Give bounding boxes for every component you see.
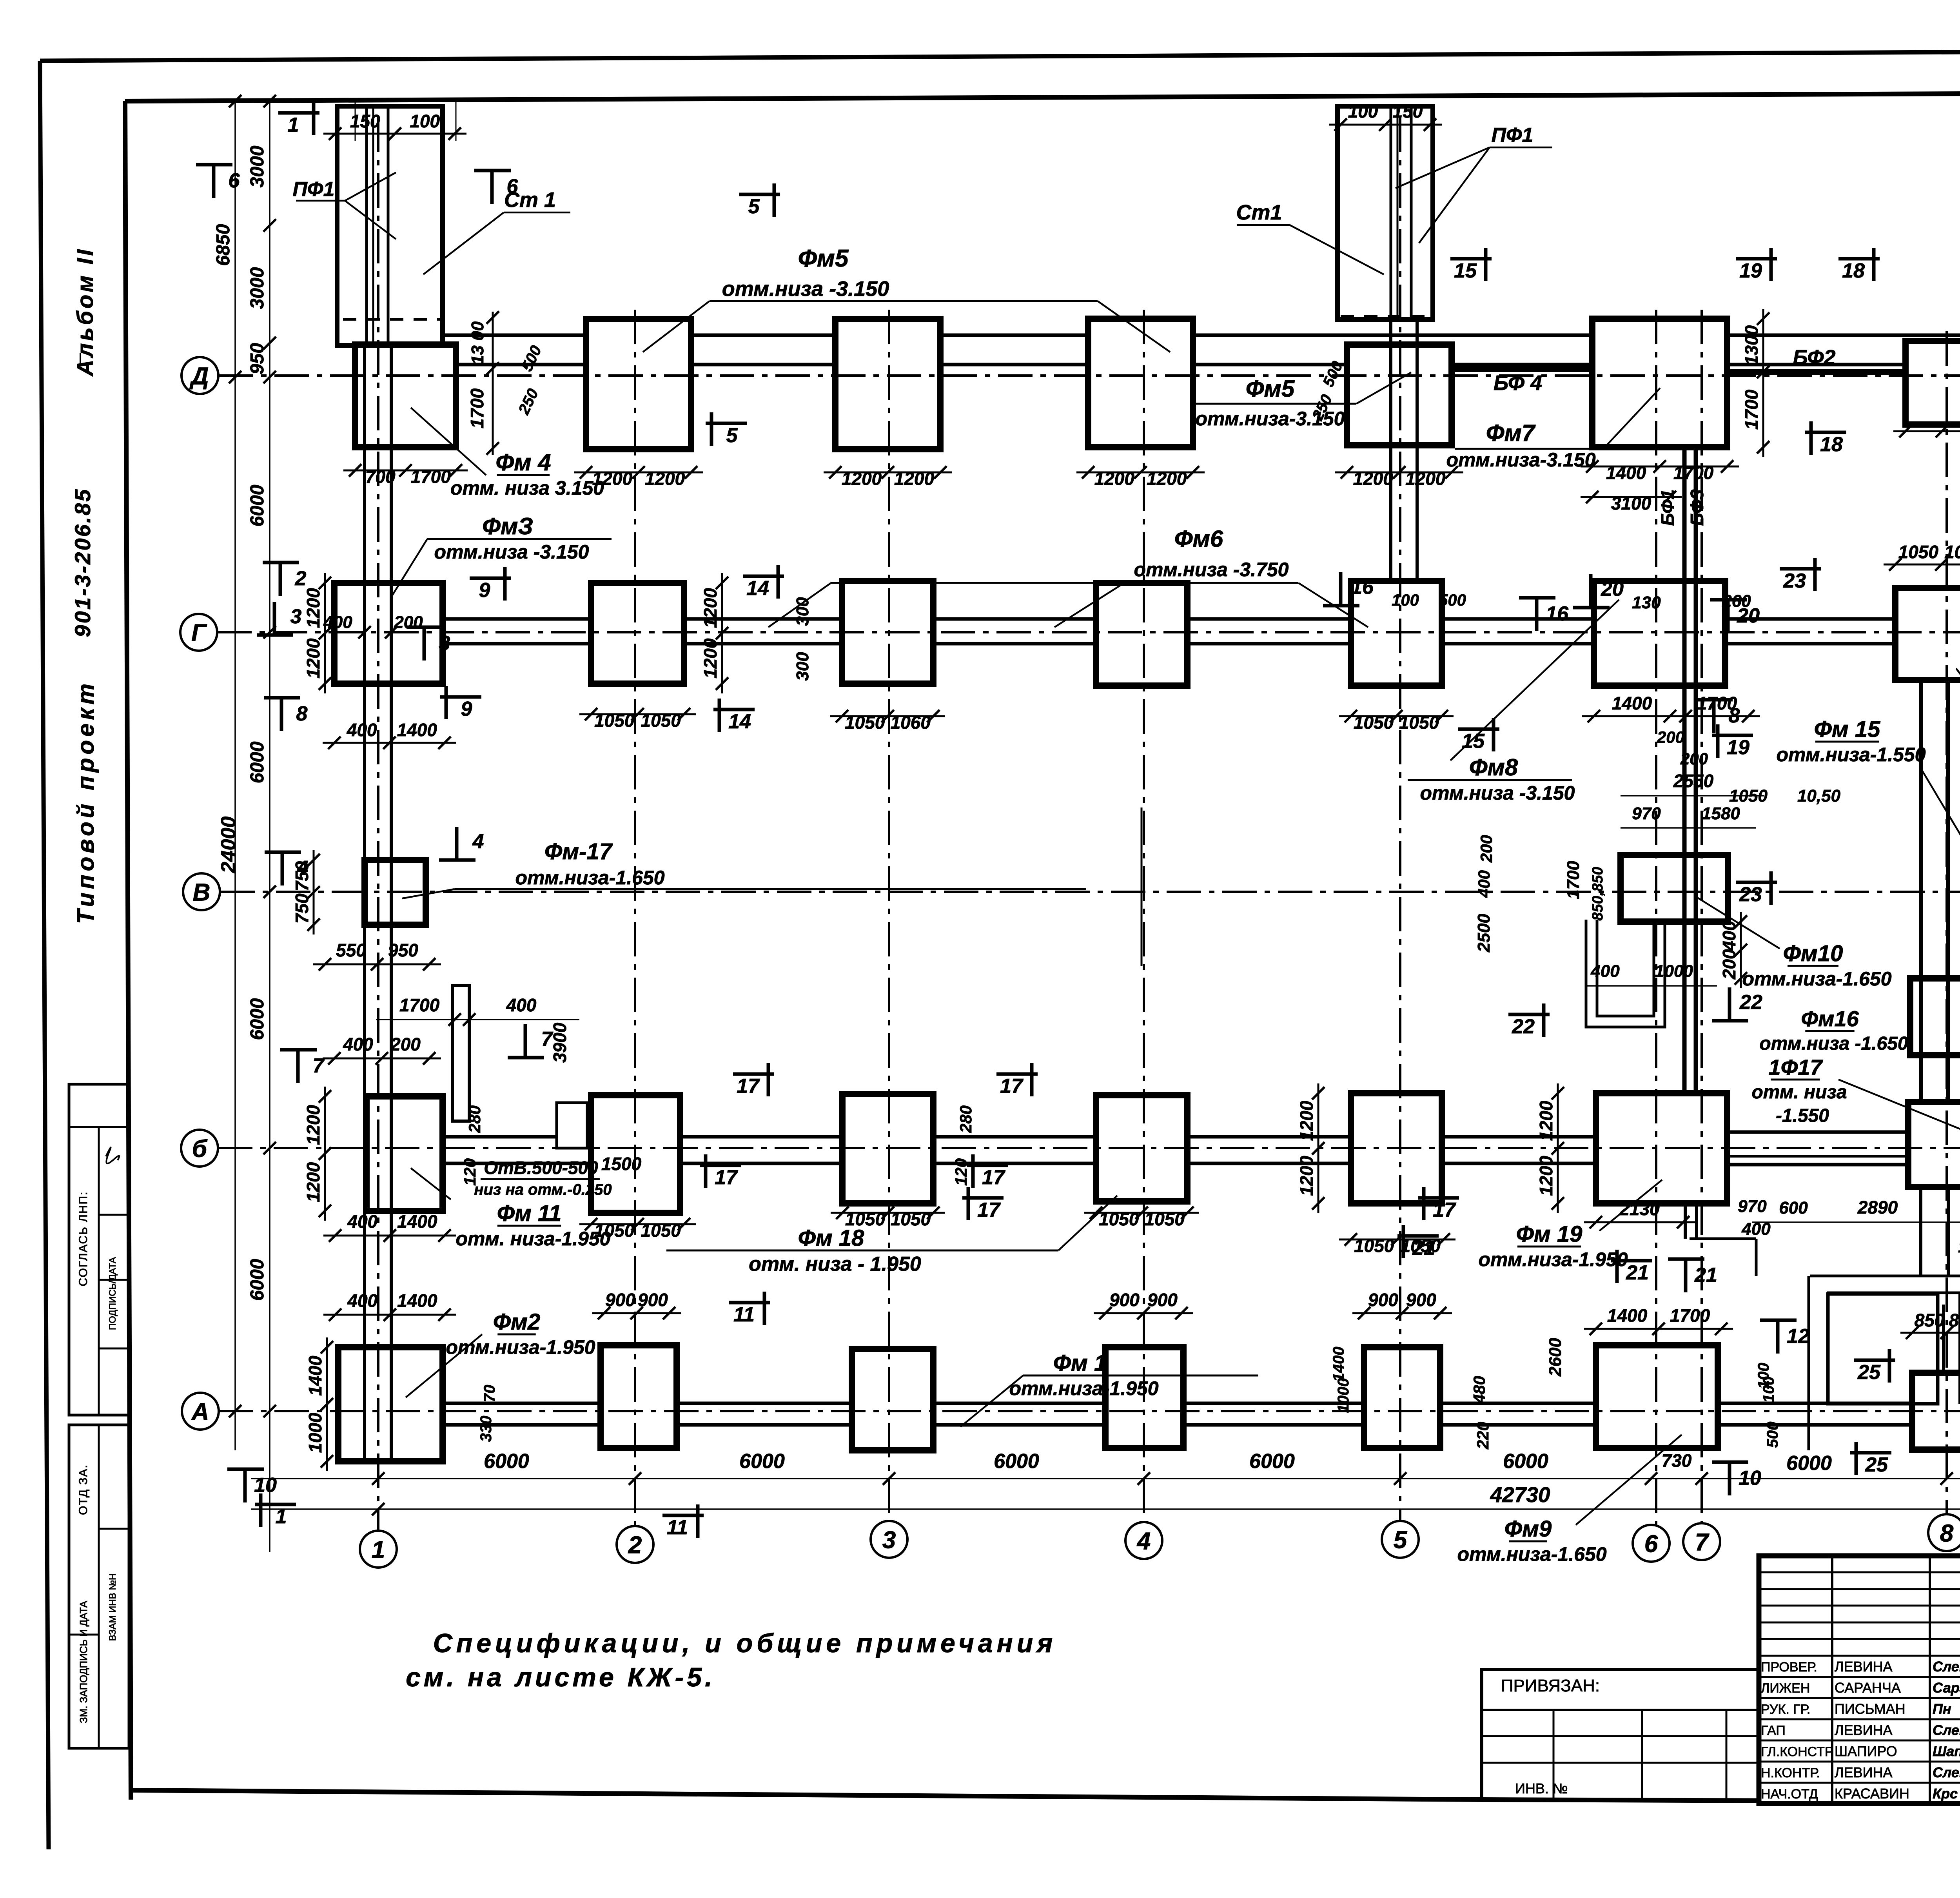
svg-text:15: 15 <box>1462 730 1485 753</box>
svg-text:600: 600 <box>1779 1198 1808 1218</box>
svg-text:17: 17 <box>977 1199 1001 1221</box>
svg-text:7: 7 <box>313 1054 325 1077</box>
svg-text:1000: 1000 <box>1335 1378 1352 1413</box>
svg-text:8: 8 <box>296 702 308 725</box>
svg-text:400: 400 <box>347 1211 377 1232</box>
svg-text:100: 100 <box>1958 1238 1960 1256</box>
svg-text:Типовой проект: Типовой проект <box>73 680 99 924</box>
svg-text:16: 16 <box>1351 576 1374 599</box>
svg-text:ЛИЖЕН: ЛИЖЕН <box>1761 1681 1810 1696</box>
svg-text:ЛЕВИНА: ЛЕВИНА <box>1835 1722 1893 1738</box>
svg-text:отм.низа-3.150: отм.низа-3.150 <box>1195 408 1345 430</box>
opening ОтВ 500x500 <box>557 1103 587 1148</box>
total 42730 line <box>251 1508 1960 1510</box>
svg-text:Фм 4: Фм 4 <box>495 449 551 475</box>
axis circle Д <box>181 357 218 394</box>
svg-text:1050: 1050 <box>641 710 681 731</box>
svg-text:отм.низа-1.950: отм.низа-1.950 <box>1478 1248 1628 1270</box>
svg-text:низ на отм.-0.250: низ на отм.-0.250 <box>474 1181 612 1198</box>
svg-text:22: 22 <box>1739 991 1762 1014</box>
axis circles 1-9 <box>360 1531 397 1568</box>
svg-text:ПИСЬМАН: ПИСЬМАН <box>1835 1701 1906 1717</box>
svg-text:901-3-206.85: 901-3-206.85 <box>70 488 95 637</box>
title block <box>1759 1556 1960 1804</box>
svg-text:6850: 6850 <box>213 224 234 266</box>
svg-text:отм.низа -1.650: отм.низа -1.650 <box>1759 1033 1908 1054</box>
attachment table ПРИВЯЗАН <box>1482 1669 1759 1800</box>
svg-text:1700: 1700 <box>1564 861 1583 899</box>
svg-text:ЗМ. ЗАПОДПИСЬ И ДАТА: ЗМ. ЗАПОДПИСЬ И ДАТА <box>78 1600 89 1723</box>
svg-text:отм.низа-1.650: отм.низа-1.650 <box>1742 968 1891 990</box>
svg-text:отм.низа-1.550: отм.низа-1.550 <box>1776 744 1926 766</box>
svg-text:Фм 1: Фм 1 <box>1053 1350 1107 1376</box>
foundation beams row Г <box>391 617 1960 621</box>
svg-text:1700: 1700 <box>1670 1305 1710 1326</box>
svg-text:отм.низа-1.950: отм.низа-1.950 <box>1009 1377 1158 1399</box>
retaining wall pillar Ст1 at column 5 <box>1338 106 1433 319</box>
svg-text:ПОДПИСЬ/ДАТА: ПОДПИСЬ/ДАТА <box>107 1257 118 1330</box>
svg-text:Спецификации, и общие прим: Спецификации, и общие примечания <box>433 1628 1057 1658</box>
foundation ФМ12 <box>1895 588 1960 680</box>
svg-text:100: 100 <box>1348 101 1378 122</box>
svg-text:1700: 1700 <box>1741 389 1762 430</box>
svg-text:42730: 42730 <box>1490 1482 1550 1507</box>
svg-text:3: 3 <box>882 1526 896 1553</box>
svg-text:ФмЗ: ФмЗ <box>482 513 533 539</box>
svg-text:1: 1 <box>372 1536 385 1563</box>
svg-text:850: 850 <box>1949 1310 1960 1330</box>
svg-text:23: 23 <box>1739 883 1762 906</box>
axis row Д <box>219 374 1960 377</box>
svg-text:25: 25 <box>1857 1361 1881 1384</box>
svg-text:см. на листе КЖ-5.: см. на листе КЖ-5. <box>406 1662 715 1692</box>
svg-text:280: 280 <box>465 1105 484 1133</box>
svg-text:Слевира: Слевира <box>1933 1722 1960 1738</box>
svg-text:РУК. ГР.: РУК. ГР. <box>1761 1702 1810 1717</box>
svg-text:1580: 1580 <box>1702 804 1740 823</box>
local dimensions row А <box>592 1312 681 1314</box>
svg-text:Фм9: Фм9 <box>1504 1516 1552 1542</box>
svg-text:950: 950 <box>388 940 418 960</box>
svg-text:22: 22 <box>1512 1015 1535 1038</box>
svg-text:200: 200 <box>1680 749 1708 768</box>
svg-text:200: 200 <box>1719 949 1739 980</box>
svg-text:970: 970 <box>1738 1197 1767 1216</box>
svg-text:19: 19 <box>1739 259 1762 282</box>
svg-text:1200: 1200 <box>1296 1101 1317 1141</box>
svg-text:1200: 1200 <box>303 588 323 628</box>
svg-text:СОГЛАСЬ ЛНП:: СОГЛАСЬ ЛНП: <box>77 1191 90 1287</box>
svg-text:САРАНЧА: САРАНЧА <box>1835 1680 1901 1696</box>
svg-text:20: 20 <box>1601 578 1624 601</box>
svg-text:12: 12 <box>1787 1325 1809 1348</box>
svg-text:ПФ1: ПФ1 <box>293 178 335 201</box>
svg-text:ПФ1: ПФ1 <box>1492 124 1534 147</box>
axis circle Б <box>181 1130 218 1167</box>
svg-text:1700: 1700 <box>399 995 440 1015</box>
svg-text:ГАП: ГАП <box>1761 1723 1786 1738</box>
svg-text:500: 500 <box>1764 1422 1781 1448</box>
top dimensions over pillars <box>323 133 466 135</box>
svg-text:Фм 11: Фм 11 <box>497 1201 562 1226</box>
beam БФ1 / БФ3 vertical pair <box>1682 447 1687 1093</box>
svg-text:25: 25 <box>1865 1453 1888 1476</box>
svg-text:Ст1: Ст1 <box>1236 201 1282 224</box>
svg-text:6000: 6000 <box>739 1450 785 1473</box>
foundations row Г <box>334 583 443 684</box>
svg-text:отм.низа-1.650: отм.низа-1.650 <box>1457 1543 1606 1565</box>
svg-text:Фм6: Фм6 <box>1174 526 1223 552</box>
svg-text:6000: 6000 <box>994 1450 1039 1473</box>
svg-text:6000: 6000 <box>247 484 268 526</box>
svg-text:6000: 6000 <box>1249 1450 1295 1473</box>
axis row А <box>219 1410 1960 1412</box>
svg-text:отм. низа-1.950: отм. низа-1.950 <box>456 1228 611 1250</box>
svg-text:Фм8: Фм8 <box>1469 754 1518 780</box>
svg-text:24000: 24000 <box>217 817 240 874</box>
svg-text:23: 23 <box>1783 570 1806 592</box>
svg-text:Сарз: Сарз <box>1933 1680 1960 1696</box>
svg-text:Фм 18: Фм 18 <box>798 1225 865 1251</box>
section markers <box>196 163 232 167</box>
svg-text:3: 3 <box>290 605 302 628</box>
retaining wall pillar Ст1 at column 1 <box>337 106 443 345</box>
svg-text:отм.низа -3.750: отм.низа -3.750 <box>1134 559 1289 581</box>
wall lines column 1 <box>363 345 366 1461</box>
foundation beams row Б <box>391 1135 1596 1139</box>
svg-text:2550: 2550 <box>1673 771 1714 791</box>
foundation ФМ19 <box>1596 1093 1727 1203</box>
narrow pier near Б <box>452 985 469 1121</box>
sidebar stamp box B <box>69 1425 129 1748</box>
svg-text:750: 750 <box>292 893 312 924</box>
svg-text:ИНВ. №: ИНВ. № <box>1515 1780 1568 1796</box>
svg-text:1200: 1200 <box>645 468 685 489</box>
axis circle Г <box>180 614 217 651</box>
svg-text:6000: 6000 <box>247 741 268 783</box>
svg-text:150: 150 <box>1393 101 1423 122</box>
svg-text:1400: 1400 <box>1607 1305 1648 1326</box>
svg-text:400: 400 <box>347 1290 377 1311</box>
svg-text:13 00: 13 00 <box>468 321 487 365</box>
svg-text:1400: 1400 <box>305 1355 325 1396</box>
svg-text:Фм10: Фм10 <box>1783 941 1843 966</box>
beam pair column 8 <box>1919 680 1923 1102</box>
foundation ФМ10 <box>1621 855 1728 922</box>
svg-text:отм. низа: отм. низа <box>1751 1082 1847 1103</box>
foundation ФМ8 <box>1594 581 1725 686</box>
svg-text:850,850: 850,850 <box>1590 867 1606 920</box>
svg-text:б: б <box>192 1135 208 1162</box>
left vertical dimension chains <box>234 101 236 1450</box>
svg-text:400: 400 <box>323 613 352 632</box>
svg-text:Шап.: Шап. <box>1933 1743 1960 1759</box>
svg-text:1700: 1700 <box>411 466 451 487</box>
svg-text:19: 19 <box>1727 736 1749 759</box>
svg-text:отм.низа -3.150: отм.низа -3.150 <box>1420 782 1575 804</box>
svg-text:1700: 1700 <box>1673 463 1714 483</box>
svg-text:10: 10 <box>1739 1467 1761 1490</box>
svg-text:отм.низа-1.950: отм.низа-1.950 <box>446 1336 595 1358</box>
foundation ФМ2 <box>338 1347 443 1461</box>
svg-text:900: 900 <box>1368 1290 1398 1310</box>
svg-text:КРАСАВИН: КРАСАВИН <box>1835 1785 1909 1802</box>
svg-text:1200: 1200 <box>1405 468 1446 489</box>
axis circle В <box>183 873 220 910</box>
svg-text:14: 14 <box>746 577 769 600</box>
svg-text:900: 900 <box>1147 1290 1178 1310</box>
svg-text:1200: 1200 <box>1536 1156 1556 1196</box>
svg-text:3000: 3000 <box>247 145 268 187</box>
svg-text:3: 3 <box>439 632 450 655</box>
svg-text:100: 100 <box>410 111 440 131</box>
svg-text:11: 11 <box>667 1516 688 1539</box>
svg-text:1000: 1000 <box>1655 962 1693 981</box>
svg-text:ВЗАМ ИНВ №Н: ВЗАМ ИНВ №Н <box>107 1573 118 1641</box>
svg-text:6: 6 <box>1644 1530 1658 1557</box>
svg-text:500: 500 <box>1439 591 1466 609</box>
svg-text:6: 6 <box>229 169 240 192</box>
svg-text:200: 200 <box>1657 728 1684 746</box>
svg-text:А: А <box>191 1398 209 1425</box>
inner drawing border <box>125 91 1960 101</box>
svg-text:1200: 1200 <box>1147 468 1187 489</box>
foundation beams row Д <box>391 334 1960 337</box>
svg-text:6000: 6000 <box>247 1259 268 1301</box>
svg-text:Фм 19: Фм 19 <box>1516 1221 1583 1247</box>
svg-text:НАЧ.ОТД: НАЧ.ОТД <box>1761 1787 1818 1802</box>
svg-text:1050: 1050 <box>1944 542 1960 562</box>
svg-text:70: 70 <box>481 1385 498 1403</box>
svg-text:2500: 2500 <box>1474 914 1494 953</box>
svg-text:220: 220 <box>1474 1422 1492 1450</box>
svg-text:1000: 1000 <box>305 1413 325 1453</box>
svg-text:Н.КОНТР.: Н.КОНТР. <box>1761 1766 1820 1780</box>
svg-text:1050: 1050 <box>641 1220 681 1241</box>
svg-text:11: 11 <box>733 1303 755 1326</box>
foundation ФМ9 <box>1596 1345 1718 1448</box>
svg-text:1200: 1200 <box>1536 1101 1556 1141</box>
svg-text:отм.низа-3.150: отм.низа-3.150 <box>1446 449 1595 471</box>
svg-text:3900: 3900 <box>550 1022 570 1063</box>
foundation ФМ1 <box>601 1345 677 1448</box>
svg-text:6000: 6000 <box>1786 1452 1832 1475</box>
svg-text:1050: 1050 <box>1898 542 1939 562</box>
foundation beams row А <box>391 1402 1960 1405</box>
svg-text:отм.низа -3.150: отм.низа -3.150 <box>434 541 589 563</box>
svg-text:Слевина: Слевина <box>1933 1658 1960 1675</box>
svg-text:1: 1 <box>276 1505 287 1528</box>
svg-text:2600: 2600 <box>1546 1338 1565 1377</box>
svg-text:1050: 1050 <box>1354 712 1394 733</box>
svg-text:150: 150 <box>350 111 380 131</box>
svg-text:7: 7 <box>1695 1529 1710 1556</box>
pit ФМ16 outline <box>1586 920 1665 1027</box>
svg-text:400: 400 <box>1719 920 1739 951</box>
wall lines column 5 <box>1389 319 1392 581</box>
retaining wall strips lower right <box>1810 1275 1960 1277</box>
svg-text:Фм5: Фм5 <box>798 245 849 272</box>
svg-text:1400: 1400 <box>1612 693 1652 713</box>
svg-text:ОТД ЗА.: ОТД ЗА. <box>77 1464 90 1515</box>
svg-text:ПРОВЕР.: ПРОВЕР. <box>1761 1660 1817 1675</box>
svg-text:730: 730 <box>1662 1450 1692 1471</box>
svg-text:400: 400 <box>1475 870 1493 898</box>
intermediate foundations <box>1910 978 1960 1055</box>
svg-text:Слевина: Слевина <box>1933 1764 1960 1780</box>
svg-text:Фм7: Фм7 <box>1486 420 1536 446</box>
svg-text:1200: 1200 <box>1296 1156 1317 1196</box>
beam БФ4 (thick) <box>1452 366 1597 372</box>
svg-text:4: 4 <box>472 830 484 853</box>
svg-text:900: 900 <box>605 1290 635 1310</box>
svg-text:1700: 1700 <box>467 388 487 428</box>
svg-text:1200: 1200 <box>700 638 720 679</box>
svg-text:Д: Д <box>189 363 209 390</box>
svg-text:1500: 1500 <box>601 1154 642 1174</box>
foundation ФМ11 <box>367 1096 443 1211</box>
svg-text:900: 900 <box>1406 1290 1436 1310</box>
svg-text:1050: 1050 <box>594 710 635 731</box>
bottom axis distance chain <box>251 1478 1960 1479</box>
svg-text:Пн: Пн <box>1933 1701 1951 1717</box>
svg-text:17: 17 <box>1000 1075 1024 1098</box>
svg-text:1: 1 <box>288 114 299 136</box>
svg-text:6000: 6000 <box>484 1450 529 1473</box>
svg-text:1050: 1050 <box>1099 1209 1139 1229</box>
svg-text:10: 10 <box>254 1474 277 1497</box>
svg-text:3000: 3000 <box>247 267 268 309</box>
local dimensions row Б <box>579 1223 696 1225</box>
svg-text:1300: 1300 <box>1741 325 1762 365</box>
local dimensions row Г <box>579 713 696 715</box>
svg-text:900: 900 <box>638 1290 668 1310</box>
svg-text:950: 950 <box>247 343 268 374</box>
svg-text:1060: 1060 <box>891 712 931 733</box>
svg-text:1400: 1400 <box>397 720 437 740</box>
svg-text:8: 8 <box>1729 704 1740 727</box>
svg-text:9: 9 <box>479 579 490 602</box>
axis circle А <box>182 1393 219 1430</box>
svg-text:17: 17 <box>737 1075 760 1098</box>
axis row Б <box>218 1147 1960 1149</box>
svg-text:130: 130 <box>1632 593 1661 612</box>
svg-text:400: 400 <box>506 995 537 1015</box>
foundation ФМ17 <box>365 860 426 925</box>
beam БФ2 row Д (thick) <box>1727 369 1960 375</box>
svg-text:Фм-17: Фм-17 <box>544 839 613 864</box>
svg-text:Фм 15: Фм 15 <box>1814 717 1881 742</box>
svg-text:330: 330 <box>477 1416 495 1442</box>
svg-text:970: 970 <box>1632 804 1661 823</box>
svg-text:300: 300 <box>793 652 812 681</box>
svg-text:400: 400 <box>347 720 377 740</box>
svg-text:В: В <box>193 879 211 906</box>
svg-text:550: 550 <box>336 940 366 960</box>
svg-text:Фм2: Фм2 <box>493 1309 540 1335</box>
svg-text:1050: 1050 <box>845 712 885 733</box>
svg-text:Крс: Крс <box>1933 1785 1958 1802</box>
svg-text:8: 8 <box>1940 1520 1954 1547</box>
svg-text:отм.низа -3.150: отм.низа -3.150 <box>722 277 889 301</box>
svg-text:200: 200 <box>1477 835 1495 863</box>
foundation ФМ4 <box>355 345 456 447</box>
local dimensions row Д <box>343 470 468 472</box>
svg-text:120: 120 <box>952 1158 970 1186</box>
svg-text:БФ2: БФ2 <box>1793 346 1835 369</box>
svg-text:900: 900 <box>1109 1290 1140 1310</box>
svg-text:700: 700 <box>365 466 396 487</box>
svg-text:ГЛ.КОНСТР: ГЛ.КОНСТР <box>1761 1744 1834 1759</box>
svg-text:200: 200 <box>390 1034 421 1054</box>
svg-text:21: 21 <box>1626 1261 1649 1284</box>
svg-text:1200: 1200 <box>894 468 935 489</box>
svg-text:400: 400 <box>1590 962 1620 981</box>
svg-text:БФ3: БФ3 <box>1687 489 1707 526</box>
svg-text:100: 100 <box>1760 1377 1777 1403</box>
svg-text:17: 17 <box>1433 1199 1456 1221</box>
svg-text:850: 850 <box>1915 1310 1945 1330</box>
svg-text:ЛЕВИНА: ЛЕВИНА <box>1835 1764 1893 1780</box>
foundation ФМ7 <box>1592 319 1727 447</box>
svg-text:400: 400 <box>343 1034 373 1054</box>
svg-text:14: 14 <box>728 710 751 733</box>
svg-text:3100: 3100 <box>1611 493 1651 514</box>
svg-text:7: 7 <box>541 1028 554 1051</box>
svg-text:1200: 1200 <box>1094 468 1135 489</box>
svg-text:4: 4 <box>1136 1528 1151 1555</box>
svg-text:отм. низа - 1.950: отм. низа - 1.950 <box>749 1253 921 1276</box>
svg-text:1400: 1400 <box>397 1290 437 1311</box>
svg-text:1050: 1050 <box>1354 1236 1394 1256</box>
svg-text:10,50: 10,50 <box>1797 786 1841 806</box>
svg-text:ОтВ.500-500: ОтВ.500-500 <box>484 1158 598 1178</box>
svg-text:17: 17 <box>715 1166 738 1189</box>
svg-text:1200: 1200 <box>303 1162 323 1202</box>
svg-text:1050: 1050 <box>1729 786 1768 806</box>
svg-text:БФ 4: БФ 4 <box>1494 371 1542 395</box>
svg-text:Фм5: Фм5 <box>1246 376 1295 402</box>
svg-text:1200: 1200 <box>700 588 720 628</box>
axis column lines <box>377 118 379 1531</box>
svg-text:ЛЕВИНА: ЛЕВИНА <box>1835 1658 1893 1675</box>
svg-text:1050: 1050 <box>1399 712 1439 733</box>
svg-text:Фм16: Фм16 <box>1801 1006 1859 1031</box>
section line col4 <box>1141 807 1143 966</box>
svg-text:480: 480 <box>1470 1376 1488 1404</box>
svg-text:18: 18 <box>1842 259 1865 282</box>
svg-text:5: 5 <box>726 424 738 447</box>
svg-text:1400: 1400 <box>397 1211 437 1232</box>
svg-text:2: 2 <box>628 1531 642 1559</box>
local dimensions row В <box>313 964 441 965</box>
svg-text:15: 15 <box>1454 259 1477 282</box>
svg-text:1400: 1400 <box>1606 463 1646 483</box>
svg-text:1200: 1200 <box>1353 468 1394 489</box>
svg-text:отм. низа 3.150: отм. низа 3.150 <box>450 477 604 499</box>
svg-text:300: 300 <box>793 597 812 626</box>
svg-text:БФ1: БФ1 <box>1657 490 1678 526</box>
svg-text:1200: 1200 <box>303 638 323 679</box>
svg-text:ШАПИРО: ШАПИРО <box>1835 1743 1897 1759</box>
svg-text:6000: 6000 <box>247 998 268 1040</box>
sidebar stamp box A <box>69 1084 129 1415</box>
svg-text:Ст 1: Ст 1 <box>504 188 556 212</box>
svg-text:280: 280 <box>956 1105 975 1133</box>
svg-text:16: 16 <box>1546 602 1569 625</box>
svg-text:2: 2 <box>295 567 307 590</box>
svg-text:6000: 6000 <box>1503 1450 1548 1473</box>
